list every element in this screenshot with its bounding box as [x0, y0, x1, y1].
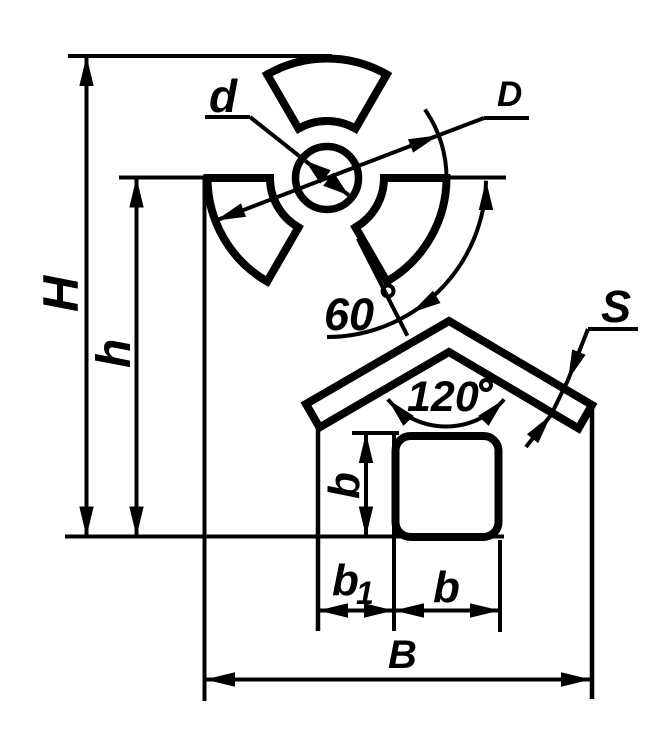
svg-text:D: D	[497, 75, 522, 114]
extension line right wall down (B)	[590, 430, 595, 699]
120 deg dimension arc	[388, 399, 504, 426]
extension line x=394 (square left edge down)	[392, 433, 396, 631]
svg-text:120: 120	[407, 373, 479, 421]
hub circle d	[296, 147, 359, 210]
60 deg radial extension line	[358, 239, 408, 336]
d leader	[205, 115, 250, 119]
extension line mid left (center height)	[119, 176, 212, 180]
right wall top part	[590, 406, 595, 430]
svg-text:1: 1	[356, 575, 374, 611]
extension line left wall down (b1)	[316, 538, 321, 631]
b vertical dimension line	[364, 433, 368, 537]
svg-text:60: 60	[324, 289, 374, 340]
b1 / b horizontal dimension line	[318, 609, 500, 613]
D leader	[439, 118, 484, 135]
svg-text:S: S	[601, 281, 631, 332]
blade sector top	[267, 58, 387, 128]
svg-text:B: B	[388, 633, 417, 677]
blade sector lower-left	[208, 178, 299, 282]
svg-text:d: d	[209, 70, 238, 122]
svg-text:b: b	[332, 556, 359, 605]
B dimension line	[205, 678, 591, 682]
blade sector lower-right	[356, 178, 447, 282]
extension line top (outer diameter top)	[68, 54, 332, 58]
b vertical dimension ext line	[352, 431, 399, 435]
svg-text:b: b	[433, 563, 460, 612]
extension line x=204 (left edge of D circle, down to B)	[203, 178, 207, 701]
d internal arrows	[305, 161, 331, 184]
thin arc of D circle through gap	[425, 110, 447, 215]
extension line mid right (60 deg datum)	[446, 176, 506, 180]
left wall	[316, 426, 321, 538]
roof band (S thickness chevron)	[306, 321, 592, 428]
extension line x=500 (square right edge down)	[498, 540, 502, 632]
60 deg dimension arc	[327, 181, 486, 337]
svg-text:H: H	[33, 275, 89, 312]
svg-text:h: h	[88, 339, 141, 368]
svg-text:b: b	[320, 472, 369, 499]
dimension H line	[85, 56, 89, 537]
baseline extension (bottom of square)	[65, 535, 504, 539]
S leader and arrows	[568, 329, 588, 380]
dimension h line	[135, 178, 139, 537]
D dimension line through center	[215, 135, 438, 221]
square tube b x b	[396, 436, 499, 537]
